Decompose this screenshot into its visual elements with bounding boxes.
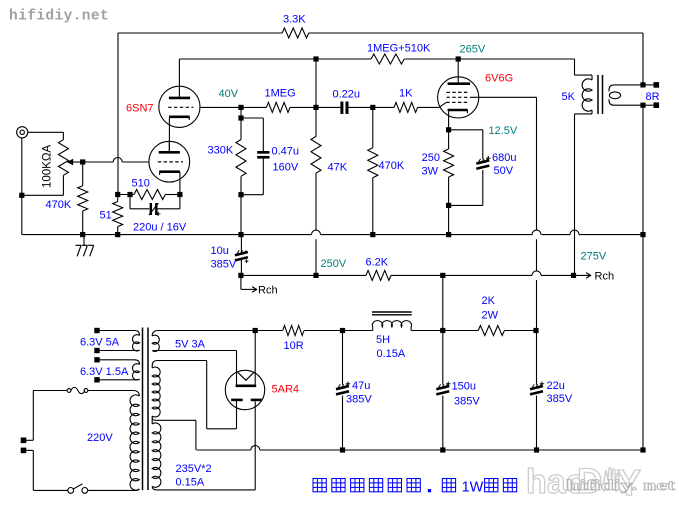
svg-text:275V: 275V [581, 251, 607, 263]
svg-text:0.47u: 0.47u [272, 146, 300, 158]
svg-text:51: 51 [100, 210, 112, 222]
svg-text:6.3V 5A: 6.3V 5A [80, 337, 120, 349]
svg-text:hifidiy.net: hifidiy.net [9, 9, 109, 25]
svg-text:265V: 265V [460, 44, 486, 56]
svg-text:6SN7: 6SN7 [126, 103, 154, 115]
svg-text:1K: 1K [399, 88, 413, 100]
svg-text:47u: 47u [352, 380, 370, 392]
svg-text:250: 250 [422, 152, 440, 164]
svg-text:10R: 10R [284, 340, 304, 352]
svg-text:150u: 150u [452, 381, 476, 393]
svg-text:5H: 5H [376, 334, 390, 346]
svg-text:6.2K: 6.2K [366, 257, 389, 269]
svg-text:0.22u: 0.22u [333, 89, 361, 101]
svg-text:680u: 680u [492, 152, 516, 164]
svg-text:Rch: Rch [595, 271, 615, 283]
svg-text:1W: 1W [462, 480, 484, 496]
svg-text:40V: 40V [219, 88, 239, 100]
svg-text:hifidiy. net: hifidiy. net [566, 478, 675, 494]
svg-text:3.3K: 3.3K [283, 14, 306, 26]
svg-text:Rch: Rch [258, 285, 278, 297]
svg-text:0.15A: 0.15A [377, 348, 406, 360]
svg-text:510: 510 [132, 178, 150, 190]
svg-text:1MEG+510K: 1MEG+510K [367, 43, 431, 55]
svg-text:1MEG: 1MEG [265, 88, 296, 100]
svg-text:220u / 16V: 220u / 16V [133, 222, 187, 234]
svg-text:470K: 470K [379, 160, 405, 172]
svg-text:235V*2: 235V*2 [176, 463, 212, 475]
svg-text:220V: 220V [87, 432, 113, 444]
svg-text:2W: 2W [482, 310, 499, 322]
svg-text:5V 3A: 5V 3A [175, 339, 206, 351]
svg-text:385V: 385V [454, 396, 480, 408]
svg-text:470K: 470K [46, 199, 72, 211]
svg-text:385V: 385V [346, 394, 372, 406]
svg-text:160V: 160V [273, 162, 299, 174]
svg-text:12.5V: 12.5V [489, 125, 518, 137]
svg-text:22u: 22u [547, 380, 565, 392]
svg-text:5K: 5K [562, 91, 576, 103]
svg-text:330K: 330K [208, 145, 234, 157]
svg-text:385V: 385V [547, 393, 573, 405]
svg-text:3W: 3W [422, 166, 439, 178]
svg-text:50V: 50V [494, 165, 514, 177]
svg-text:250V: 250V [321, 258, 347, 270]
svg-text:385V: 385V [211, 259, 237, 271]
svg-text:8R: 8R [646, 91, 660, 103]
svg-text:2K: 2K [482, 295, 496, 307]
svg-text:6V6G: 6V6G [485, 73, 513, 85]
svg-text:5AR4: 5AR4 [272, 384, 300, 396]
svg-text:100KΩA: 100KΩA [42, 145, 54, 188]
svg-text:10u: 10u [211, 245, 229, 257]
svg-text:6.3V 1.5A: 6.3V 1.5A [80, 366, 129, 378]
svg-text:47K: 47K [328, 162, 348, 174]
svg-text:0.15A: 0.15A [176, 477, 205, 489]
